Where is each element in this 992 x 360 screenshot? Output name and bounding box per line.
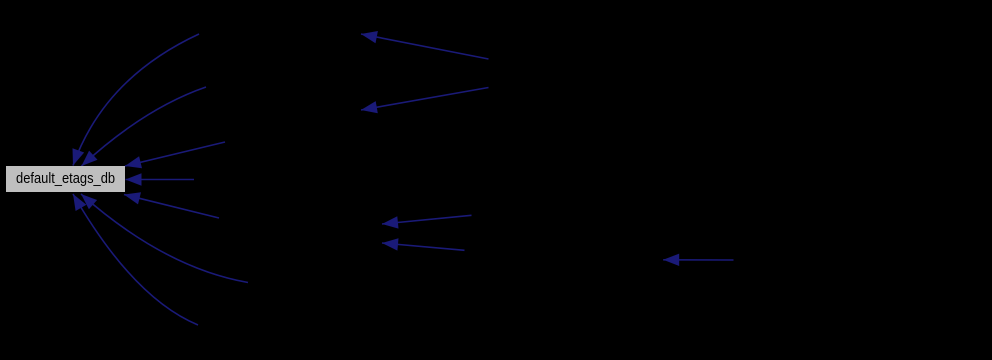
edge I: mid node -> lower node	[361, 88, 489, 114]
node default_etags_db	[6, 166, 125, 192]
edge H: mid node -> upper node	[361, 31, 489, 59]
edge C: caller3 -> default_etags_db	[125, 142, 225, 168]
edge E: caller5 -> default_etags_db	[124, 192, 219, 218]
edge G: caller7 -> default_etags_db	[73, 194, 198, 325]
edge K: right node2 -> mid node	[382, 238, 465, 250]
edge F: caller6 -> default_etags_db	[81, 194, 248, 283]
edge L: far right node -> node	[663, 254, 733, 266]
edge J: right node -> mid node	[382, 215, 472, 228]
edge A: caller1 -> default_etags_db	[73, 34, 200, 166]
edge B: caller2 -> default_etags_db	[82, 87, 207, 166]
edge D: caller4 -> default_etags_db	[126, 173, 195, 185]
